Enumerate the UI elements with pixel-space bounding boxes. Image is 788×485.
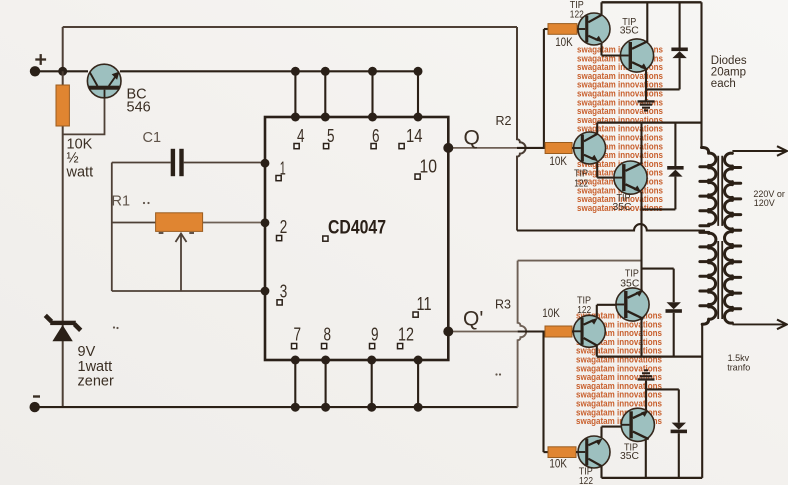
wire primary bottom to bus4	[701, 324, 703, 478]
svg-text:each: each	[711, 78, 736, 90]
wire BC546 to pin14 bus	[120, 70, 418, 72]
transformer primary winding	[700, 147, 716, 324]
svg-text:10: 10	[420, 157, 438, 177]
stray marks	[113, 202, 501, 376]
label 220V or 120V	[753, 189, 785, 208]
wire pins 7,8,9,12 drops	[295, 360, 418, 407]
diode D1	[671, 48, 687, 59]
capacitor C1	[171, 149, 184, 176]
svg-text:11: 11	[417, 294, 432, 314]
svg-text:10K: 10K	[555, 37, 573, 49]
wire R1 left	[112, 222, 156, 224]
label 10K 1/2 watt	[66, 137, 94, 181]
wire emitter to D1	[646, 88, 680, 90]
wire D4 anode lead	[678, 389, 680, 422]
label pin 4	[294, 126, 305, 149]
wire into 10K-4	[544, 451, 549, 453]
wire Q6 collector	[596, 345, 598, 357]
label 9V 1watt zener	[78, 344, 114, 390]
wire top collector bus	[602, 1, 702, 3]
svg-text:tranfo: tranfo	[727, 363, 750, 373]
svg-text:zener: zener	[78, 374, 114, 390]
wire Q5 collector	[640, 123, 642, 164]
label pin 12	[398, 325, 415, 349]
wire D2 cathode lead	[674, 123, 676, 166]
label pin 8	[322, 325, 332, 349]
resistor 10K-3	[545, 326, 572, 337]
wire D2 anode lead	[674, 177, 676, 210]
wire C1 right	[184, 162, 265, 164]
label pin 6	[371, 126, 380, 149]
svg-text:10K: 10K	[542, 308, 560, 320]
wire Q5/Q6 emitter line	[640, 192, 642, 292]
pot wiper arrow	[159, 233, 194, 291]
wire center-tap horizontal with hop	[517, 224, 705, 230]
node + terminal	[30, 66, 40, 76]
diode D3	[666, 302, 682, 313]
label Diodes 20amp each	[711, 55, 747, 90]
wire 10K-2 to Q4	[572, 147, 574, 149]
wire left vertical rail	[62, 71, 64, 407]
wire collector bus 4	[602, 477, 703, 479]
wire Q9 collector	[645, 439, 647, 478]
label 1.5kv tranfo	[727, 353, 750, 372]
wire center-tap feed vertical with hop	[517, 27, 526, 231]
wire R1 right	[203, 222, 265, 224]
node pin 1	[261, 159, 270, 168]
label TIP 122 (Q4)	[574, 168, 588, 190]
label -	[33, 395, 40, 397]
svg-text:120V: 120V	[754, 198, 775, 208]
resistor 10K-2	[545, 143, 572, 154]
wire pins 4,5,6,14 drops	[295, 71, 418, 117]
svg-text:35C: 35C	[620, 25, 639, 37]
wire loop bottom	[112, 290, 265, 292]
wire collector bus 3	[597, 355, 702, 357]
svg-text:R2: R2	[496, 114, 512, 128]
node top bus junctions	[291, 67, 423, 122]
wire Q7 collector	[640, 319, 642, 357]
label pin 10	[415, 157, 437, 180]
svg-text:20amp: 20amp	[711, 67, 746, 79]
svg-text:35C: 35C	[613, 201, 632, 213]
wire D4 cathode lead	[678, 433, 680, 478]
node bottom bus junctions	[291, 356, 423, 412]
label TIP 35C (Q9)	[620, 441, 639, 462]
resistor 10K 1/2 watt	[56, 85, 69, 126]
wire Q to base branch	[517, 147, 545, 149]
svg-text:watt: watt	[66, 165, 94, 181]
svg-text:R3: R3	[495, 298, 511, 312]
resistor 10K-4	[548, 447, 576, 458]
wire return horizontal	[518, 260, 642, 262]
svg-text:CD4047: CD4047	[328, 218, 386, 239]
resistor 10K-1	[548, 24, 577, 35]
wire secondary bottom output	[732, 320, 786, 330]
transistor Q3 TIP35C	[620, 39, 653, 72]
label TIP 35C (Q7)	[620, 268, 639, 290]
wire loop left vertical	[111, 163, 113, 292]
wire 10K-4 to Q8	[576, 451, 578, 453]
svg-text:C1: C1	[143, 130, 162, 146]
svg-text:12: 12	[398, 325, 414, 345]
label pin 2	[277, 217, 288, 241]
diode D2	[667, 166, 683, 177]
transistor Q7 TIP35C	[616, 288, 649, 321]
transistor Q8 TIP122	[578, 436, 610, 468]
wire emitter to D3	[642, 269, 674, 303]
wire bus1 to primary top	[700, 2, 702, 147]
ground 1	[638, 100, 655, 111]
wire D1 anode lead	[679, 58, 681, 89]
node Q	[443, 143, 453, 153]
wire C1 left	[112, 162, 171, 164]
svg-text:122: 122	[579, 475, 593, 485]
svg-text:7: 7	[294, 325, 302, 345]
label BC 546	[127, 87, 151, 116]
node - terminal	[30, 402, 40, 412]
svg-text:546: 546	[127, 100, 151, 116]
wire Q' to base branch	[518, 330, 545, 332]
svg-text:8: 8	[324, 325, 332, 345]
wire + terminal to BC546	[35, 70, 88, 72]
wire Q8 emitter to Q9 base	[602, 427, 622, 439]
label pin 14	[399, 126, 423, 149]
transistor Q6 TIP122	[573, 315, 605, 347]
wire Q2 collector	[600, 2, 602, 15]
wire D1 cathode lead	[679, 2, 681, 47]
svg-text:Diodes: Diodes	[711, 55, 747, 67]
svg-text:1watt: 1watt	[78, 359, 113, 375]
svg-text:R1: R1	[112, 194, 131, 210]
wire + rail top	[63, 27, 517, 71]
wire 10K-1 to Q2	[577, 28, 579, 30]
node pin 3	[261, 287, 270, 296]
wire stem to D4	[646, 388, 679, 390]
wire R2 branch vertical	[543, 29, 545, 148]
transistor Q4 TIP122	[574, 132, 606, 164]
wire secondary top output	[732, 146, 786, 156]
wire R3 branch vertical	[542, 332, 544, 453]
ground 2	[638, 369, 655, 380]
svg-text:35C: 35C	[620, 450, 639, 462]
label TIP 35C (Q5)	[613, 192, 632, 213]
svg-text:14: 14	[406, 126, 423, 146]
transistor Q2 TIP122	[578, 13, 610, 45]
wire Q output	[448, 147, 517, 149]
wire into 10K-1	[544, 28, 548, 30]
wire Q4 collector	[596, 123, 598, 135]
watermark text block	[576, 45, 663, 427]
node pin 2	[261, 218, 270, 227]
label TIP 35C (Q3)	[620, 16, 639, 37]
svg-text:9V: 9V	[78, 344, 96, 360]
wire ground2 stem	[645, 381, 647, 412]
transistor Q5 TIP35C	[614, 161, 647, 194]
wire 10K-3 to Q6	[572, 330, 574, 332]
wire collector bus 2	[597, 121, 701, 123]
label pin 7	[292, 325, 302, 349]
wire Q8 collector	[600, 466, 602, 478]
label pin 5	[324, 126, 335, 149]
label TIP 122 (Q8)	[579, 465, 593, 485]
label TIP 122 (Q2)	[570, 0, 584, 21]
label TIP 122 (Q6)	[577, 295, 591, 317]
wire return vertical with hop	[518, 261, 527, 408]
op-amp U1 CD4047 body	[265, 117, 448, 360]
zener diode 9V	[45, 315, 80, 341]
wire D3 cathode lead	[673, 313, 675, 357]
svg-text:2: 2	[280, 217, 288, 237]
label pin 3	[277, 282, 287, 306]
transformer core	[718, 156, 722, 319]
resistor R1	[156, 213, 203, 232]
svg-text:122: 122	[577, 304, 591, 316]
wire Q3 collector	[646, 2, 648, 42]
transformer secondary winding	[725, 153, 741, 323]
svg-text:122: 122	[574, 177, 588, 189]
label pin 9	[370, 325, 379, 349]
diode D4	[671, 423, 687, 434]
transistor Q1 BC546	[87, 64, 121, 98]
wire Q2 emitter to Q3 base	[602, 43, 622, 56]
svg-text:3: 3	[280, 282, 288, 302]
wire Q4 emitter to Q5 base	[597, 162, 614, 178]
node Q'	[443, 327, 453, 337]
transistor Q9 TIP35C	[621, 408, 654, 441]
node junction +rail	[58, 67, 67, 76]
pin square center	[323, 236, 328, 241]
svg-text:Q': Q'	[463, 308, 483, 331]
wire Q3 emitter	[645, 70, 647, 102]
label pin 1	[276, 159, 286, 181]
label +	[35, 54, 46, 65]
wire emitter to D2	[642, 208, 676, 210]
label pin 11	[413, 294, 432, 317]
wire BC546 base	[63, 95, 105, 134]
wire Q' output	[448, 331, 517, 333]
svg-text:10K: 10K	[549, 156, 567, 168]
svg-text:10K: 10K	[549, 459, 567, 471]
wire Q6 emitter to Q7 base	[597, 305, 617, 318]
wire bottom rail	[35, 406, 518, 408]
svg-text:Q: Q	[464, 127, 480, 150]
svg-text:9: 9	[371, 325, 379, 345]
